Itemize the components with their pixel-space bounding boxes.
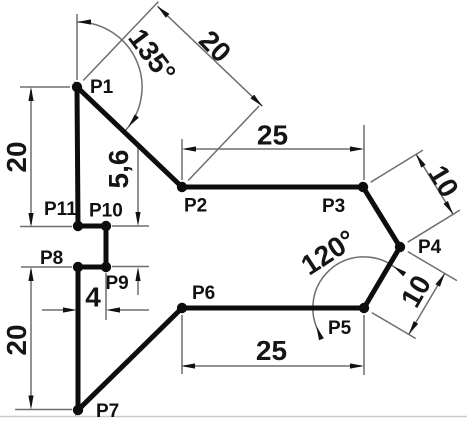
svg-text:4: 4 [85,282,101,313]
node P7 [73,405,83,415]
node P6 [177,303,187,313]
page bottom border line [0,416,467,418]
node P9 [101,262,111,272]
node P8 [73,262,83,272]
dimension 25 horizontal bottom with extension lines and arrows [181,315,364,375]
svg-text:P7: P7 [96,401,119,422]
svg-text:P11: P11 [44,199,77,220]
dimension 20 diagonal P1-P2 with perpendicular extension lines and arrows [83,2,262,181]
node P2 [177,182,187,192]
node P1 [72,82,82,92]
node P10 [101,221,111,231]
svg-text:P9: P9 [106,273,129,294]
svg-text:P6: P6 [192,283,215,304]
angle dimension 120 degrees at P5: arc and arrows [296,224,407,341]
node P5 [359,303,369,313]
svg-text:P3: P3 [322,196,345,217]
svg-text:P5: P5 [328,318,352,339]
dimension 25 horizontal top with extension lines and arrows [182,120,364,181]
dimension 20 vertical left top with extension lines and arrows [1,87,72,227]
dimension 10 diagonal P3-P4 with perpendicular extension lines and arrows [371,150,465,242]
angle dimension 135 degrees at P1: vertical reference line, arc and arrows [77,14,182,132]
svg-text:25: 25 [256,335,287,366]
svg-text:P4: P4 [418,237,442,258]
svg-text:P2: P2 [184,196,207,217]
dimension 5,6 vertical notch height with outside arrows [103,145,149,295]
svg-text:20: 20 [1,141,32,172]
svg-text:P8: P8 [40,248,63,269]
part outline polygon P1-P2-P3-P4-P5-P6-P7-P8-P9-P10-P11 [77,87,400,410]
svg-text:20: 20 [1,324,32,355]
svg-text:5,6: 5,6 [103,150,134,189]
dimension 4 horizontal notch width with outside arrows [42,273,149,320]
svg-text:25: 25 [257,120,288,151]
svg-text:P10: P10 [89,201,123,222]
dimension 10 diagonal P4-P5 with perpendicular extension lines and arrows [372,252,457,339]
node P3 [358,182,368,192]
svg-text:P1: P1 [90,77,114,98]
dimension 20 vertical left bottom with extension lines and arrows [1,267,72,410]
node P11 [73,221,83,231]
node P4 [395,242,405,252]
